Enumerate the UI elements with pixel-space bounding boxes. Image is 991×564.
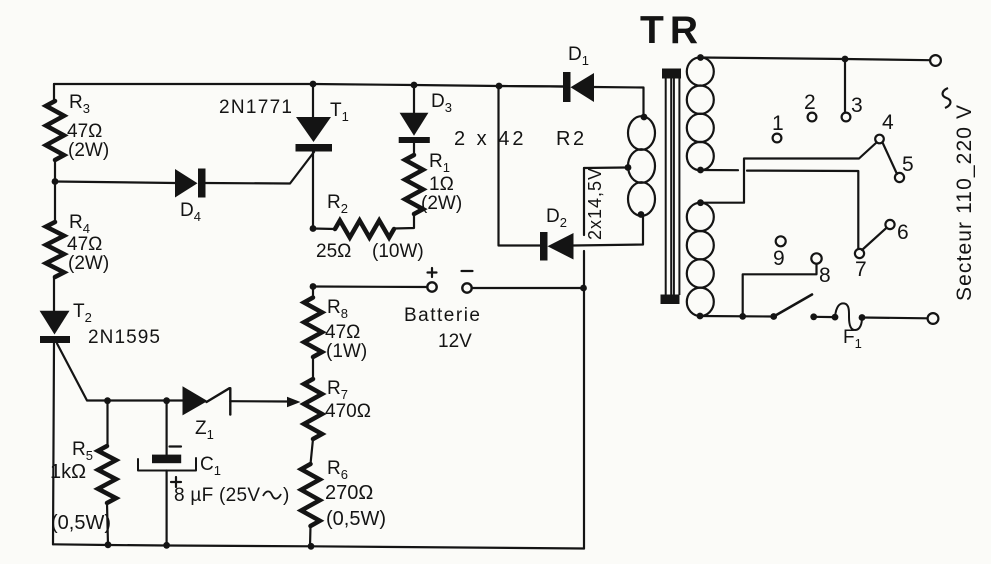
label C1 value sine [263, 485, 289, 506]
wire mains top [701, 58, 931, 61]
svg-text:2N1595: 2N1595 [88, 327, 160, 348]
node primary upper bottom [697, 167, 704, 174]
svg-text:47Ω: 47Ω [325, 322, 360, 343]
node R5 bottom junction [105, 541, 112, 548]
svg-text:R4: R4 [69, 212, 90, 236]
wire D4 anode [55, 182, 175, 184]
label R3 [69, 92, 90, 116]
node rail-terminal8 junction [739, 313, 746, 320]
svg-text:(2W): (2W) [68, 253, 109, 274]
label 2x42 R2 [454, 128, 587, 150]
svg-text:12V: 12V [438, 331, 472, 352]
wire R6 bottom [309, 526, 312, 546]
resistor R2 [335, 221, 394, 238]
svg-text:R5: R5 [72, 439, 93, 463]
terminal 8 [811, 253, 821, 263]
label R6 power (0,5W) [326, 508, 386, 530]
label R2 value [316, 241, 424, 262]
winding primary upper [687, 57, 714, 170]
wire R8 to R7 [312, 357, 314, 379]
wire selector 7-6 [862, 228, 887, 250]
label R7 value 470ohm [325, 401, 371, 422]
wire bottom right rail [700, 315, 774, 318]
label 2 [804, 91, 816, 114]
wire battery plus [313, 285, 427, 288]
label D1 [568, 44, 589, 68]
wire selector 4-5 [883, 143, 898, 175]
svg-text:D3: D3 [431, 91, 452, 115]
svg-text:4: 4 [882, 111, 894, 134]
wire D1 left [499, 85, 563, 88]
svg-text:25Ω: 25Ω [316, 241, 351, 262]
label R3 power (2W) [68, 140, 109, 161]
node C1 top junction [163, 397, 170, 404]
wire primary upper bottom to terminal 7 part2 [747, 171, 858, 249]
svg-text:C1: C1 [200, 454, 221, 478]
node switch pivot [770, 313, 777, 320]
node switch contact [810, 313, 817, 320]
svg-text:R6: R6 [327, 458, 348, 482]
resistor R5 [98, 446, 116, 503]
wire C1 bottom [166, 471, 168, 546]
svg-text:47Ω: 47Ω [67, 121, 102, 142]
svg-text:Z1: Z1 [195, 418, 214, 442]
node secondary centre tap [625, 164, 632, 171]
wire top rail [54, 84, 563, 87]
node R6 bottom junction [308, 543, 315, 550]
resistor R8 [304, 298, 322, 358]
svg-text:(2W): (2W) [421, 193, 462, 214]
terminal 7 [855, 249, 864, 258]
resistor R1 [405, 155, 423, 214]
terminal 6 [885, 220, 894, 229]
node fuse left [832, 314, 839, 321]
wire T2 gate [57, 344, 183, 401]
svg-text:6: 6 [897, 221, 909, 244]
label R8 power (1W) [326, 341, 367, 362]
wire rectifier left vertical [499, 86, 541, 246]
svg-text:1kΩ: 1kΩ [50, 461, 86, 483]
svg-text:2 x 42: 2 x 42 [454, 128, 526, 150]
svg-text:470Ω: 470Ω [325, 401, 371, 422]
wire D2 to secondary bottom [574, 216, 644, 246]
terminal 2 [808, 113, 817, 122]
winding primary lower [687, 203, 714, 316]
label 8 [819, 264, 831, 287]
diode D4 [175, 169, 206, 198]
node primary lower bottom [697, 313, 704, 320]
label R8 [327, 297, 348, 321]
node battery plus junction [310, 283, 317, 290]
wire battery minus [472, 287, 581, 289]
node D1 branch junction [496, 83, 503, 90]
svg-text:R2: R2 [556, 128, 587, 150]
wire primary upper bottom to terminal 7 part1 [701, 169, 739, 171]
wire R8 top [312, 287, 314, 298]
node secondary top [641, 114, 648, 121]
terminal 3 [842, 113, 851, 122]
svg-text:7: 7 [855, 258, 867, 281]
svg-text:D4: D4 [180, 200, 201, 224]
terminal 1 [773, 134, 782, 143]
terminal battery minus [462, 283, 471, 292]
svg-text:F1: F1 [843, 327, 862, 351]
label C1 value [174, 485, 260, 506]
node C1 bottom junction [163, 542, 170, 549]
svg-text:R2: R2 [327, 192, 348, 216]
svg-text:R3: R3 [69, 92, 90, 116]
node fuse right [859, 314, 866, 321]
svg-text:Secteur 110_220 V: Secteur 110_220 V [953, 105, 976, 301]
label R1 [429, 151, 450, 175]
wire to terminal 3 [844, 59, 846, 112]
label R5 [72, 439, 93, 463]
svg-text:R7: R7 [327, 378, 348, 402]
diode D2 [540, 232, 574, 261]
wire R2 left [313, 227, 335, 230]
svg-text:47Ω: 47Ω [67, 234, 102, 255]
label 1 [772, 112, 784, 135]
svg-text:): ) [283, 485, 289, 506]
thyristor T2 [40, 311, 70, 343]
label 12V [438, 331, 472, 352]
label R4 value 47ohm [67, 234, 102, 255]
label T2 [73, 301, 92, 325]
label R7 [327, 378, 348, 402]
wire D1 to secondary top [594, 87, 644, 116]
wire Z1 to R7 wiper [230, 397, 300, 407]
label TR [640, 9, 704, 52]
label Secteur 110-220V vertical [953, 105, 976, 301]
svg-text:2N1771: 2N1771 [219, 97, 292, 118]
label plus sign [428, 268, 437, 277]
wire left rail R3-R4 gap [54, 160, 56, 222]
node primary lower top [697, 199, 704, 206]
node T1 top junction [310, 81, 317, 88]
wire centre tap upper [584, 168, 626, 236]
label R1 power (2W) [421, 193, 462, 214]
fuse F1 [835, 303, 862, 330]
switch blade [774, 295, 812, 317]
label R3 value 47ohm [67, 121, 102, 142]
label C1 plus [171, 477, 181, 487]
wire bottom rail [53, 544, 584, 548]
label R6 [327, 458, 348, 482]
resistor R3 [46, 101, 64, 160]
label T1 [330, 100, 349, 124]
svg-text:8: 8 [819, 264, 831, 287]
wire left rail R4 to T2 [53, 277, 55, 311]
label T1 type 2N1771 [219, 97, 292, 118]
label 7 [855, 258, 867, 281]
terminal mains top [930, 55, 941, 66]
label mains sine [943, 88, 951, 108]
svg-text:270Ω: 270Ω [325, 482, 373, 504]
wire terminal 8 to bottom [743, 264, 817, 317]
node battery minus junction [580, 285, 587, 292]
wire left rail T2 to bottom [53, 343, 54, 544]
node junction to terminal 3 [842, 56, 849, 63]
svg-text:2: 2 [804, 91, 816, 114]
label minus sign [462, 270, 473, 272]
svg-text:1Ω: 1Ω [429, 174, 454, 195]
svg-text:D2: D2 [546, 206, 567, 230]
wire D3 anode [413, 85, 415, 113]
label 3 [851, 94, 863, 117]
label T2 type 2N1595 [88, 327, 160, 348]
label 9 [773, 247, 785, 270]
svg-text:D1: D1 [568, 44, 589, 68]
wire primary tap to terminal 4 [701, 143, 877, 203]
wire right vertical to bottom [583, 251, 585, 549]
node R2 left junction [310, 225, 317, 232]
terminal mains bottom [928, 313, 939, 324]
svg-text:R8: R8 [327, 297, 348, 321]
svg-text:(0,5W): (0,5W) [326, 508, 386, 530]
label R1 value 1ohm [429, 174, 454, 195]
terminal 9 [776, 236, 786, 246]
svg-text:8 µF (25V: 8 µF (25V [174, 485, 260, 506]
transformer core [661, 69, 682, 305]
svg-text:2x14,5V: 2x14,5V [585, 168, 605, 240]
wire T1 cathode [312, 152, 314, 229]
terminal 4 [875, 135, 884, 144]
diode D1 [563, 72, 594, 102]
wire D3 to R1 [413, 143, 415, 155]
diode D3 [399, 113, 430, 143]
node secondary bottom [638, 211, 645, 218]
wire R5 bottom [107, 503, 108, 545]
svg-text:(1W): (1W) [326, 341, 367, 362]
thyristor T1 [296, 117, 333, 152]
resistor R4 [46, 222, 64, 277]
label D2 [546, 206, 567, 230]
zener Z1 [183, 386, 231, 415]
svg-text:T2: T2 [73, 301, 92, 325]
wire C1 top [166, 401, 168, 455]
label D4 [180, 200, 201, 224]
label 4 [882, 111, 894, 134]
svg-text:9: 9 [773, 247, 785, 270]
node R5 top junction [104, 397, 111, 404]
label 2x14,5V vertical [585, 168, 605, 240]
svg-text:5: 5 [902, 153, 914, 176]
label R6 value 270ohm [325, 482, 373, 504]
svg-text:TR: TR [640, 9, 704, 52]
node D3 top junction [411, 82, 418, 89]
label R4 [69, 212, 90, 236]
label R5 power (0,5W) [51, 512, 111, 534]
node primary upper top [697, 54, 704, 61]
node R3-R4-D4 junction [52, 178, 59, 185]
label R4 power (2W) [68, 253, 109, 274]
svg-text:R1: R1 [429, 151, 450, 175]
wire left rail upper [53, 84, 55, 101]
label D3 [431, 91, 452, 115]
winding secondary 2x14.5V [628, 116, 655, 216]
svg-text:(2W): (2W) [68, 140, 109, 161]
svg-text:3: 3 [851, 94, 863, 117]
wire R1 to R2 [394, 214, 414, 229]
svg-text:T1: T1 [330, 100, 349, 124]
label R5 value 1kohm [50, 461, 86, 483]
label C1 [200, 454, 221, 478]
svg-text:Batterie: Batterie [404, 305, 480, 326]
label 5 [902, 153, 914, 176]
capacitor C1 [138, 455, 196, 471]
svg-text:(10W): (10W) [372, 241, 424, 262]
label R8 value 47ohm [325, 322, 360, 343]
wire fuse to mains bottom [862, 316, 928, 319]
terminal battery plus [427, 282, 436, 291]
wire R5 top [106, 401, 108, 446]
svg-text:(0,5W): (0,5W) [51, 512, 111, 534]
resistor R7 [304, 379, 322, 439]
terminal 5 [895, 173, 904, 182]
resistor R6 [301, 464, 320, 526]
wire switch to fuse [814, 316, 835, 319]
label 6 [897, 221, 909, 244]
label Batterie [404, 305, 480, 326]
wire T1 anode [312, 84, 314, 119]
svg-text:1: 1 [772, 112, 784, 135]
wire D4 to T1 gate [206, 152, 315, 184]
label C1 minus [170, 445, 182, 447]
label R2 [327, 192, 348, 216]
label F1 [843, 327, 862, 351]
label Z1 [195, 418, 214, 442]
wire R7 to R6 [311, 439, 314, 464]
